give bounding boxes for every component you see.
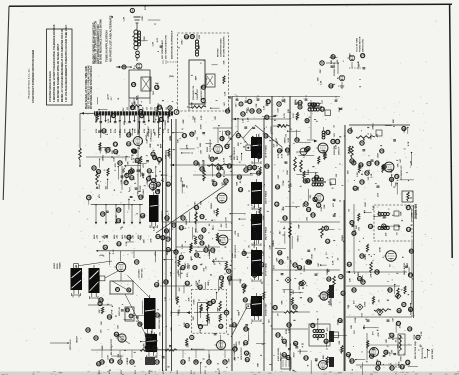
svg-text:1.2K: 1.2K bbox=[152, 41, 154, 46]
svg-text:43: 43 bbox=[97, 170, 101, 174]
svg-text:24: 24 bbox=[408, 327, 412, 331]
svg-text:1.2K: 1.2K bbox=[124, 16, 126, 21]
svg-text:100K: 100K bbox=[191, 102, 193, 108]
svg-text:470K: 470K bbox=[114, 128, 117, 133]
svg-text:35: 35 bbox=[101, 212, 105, 216]
svg-text:68K: 68K bbox=[258, 362, 260, 366]
svg-text:78: 78 bbox=[167, 248, 171, 252]
svg-text:84: 84 bbox=[400, 365, 404, 369]
svg-text:59: 59 bbox=[217, 173, 221, 177]
svg-text:66: 66 bbox=[276, 185, 280, 189]
svg-text:3: 3 bbox=[318, 203, 320, 207]
svg-text:12AU7: 12AU7 bbox=[208, 353, 211, 360]
svg-text:22K: 22K bbox=[199, 34, 201, 38]
svg-text:8MF: 8MF bbox=[178, 269, 180, 274]
svg-text:16: 16 bbox=[367, 162, 371, 166]
svg-text:1MEG: 1MEG bbox=[304, 265, 306, 271]
svg-text:1MEG: 1MEG bbox=[371, 133, 373, 139]
svg-text:61: 61 bbox=[127, 142, 131, 146]
svg-text:20: 20 bbox=[220, 137, 224, 141]
svg-text:1MEG: 1MEG bbox=[188, 263, 190, 269]
svg-text:9: 9 bbox=[278, 102, 280, 106]
svg-text:.0047: .0047 bbox=[364, 201, 367, 207]
svg-text:250: 250 bbox=[154, 107, 156, 110]
svg-text:73: 73 bbox=[360, 180, 364, 184]
svg-text:1MEG: 1MEG bbox=[298, 235, 300, 241]
svg-text:49: 49 bbox=[295, 138, 299, 142]
svg-text:470K: 470K bbox=[157, 128, 160, 133]
svg-text:33K: 33K bbox=[228, 358, 230, 362]
svg-text:54: 54 bbox=[132, 83, 136, 87]
svg-text:2 RESISTORS ARE 1/2 WATT UNLE: 2 RESISTORS ARE 1/2 WATT UNLESS NOTED; T… bbox=[53, 24, 56, 102]
svg-text:22K: 22K bbox=[317, 77, 319, 81]
svg-text:66: 66 bbox=[353, 186, 357, 190]
svg-text:.0047: .0047 bbox=[311, 253, 314, 259]
svg-text:28: 28 bbox=[131, 106, 135, 110]
svg-text:65: 65 bbox=[226, 109, 230, 113]
svg-text:68K: 68K bbox=[183, 119, 185, 123]
svg-text:33K: 33K bbox=[118, 353, 120, 357]
svg-text:62: 62 bbox=[298, 266, 302, 270]
svg-text:10K: 10K bbox=[99, 309, 101, 313]
svg-text:4.7K: 4.7K bbox=[112, 249, 115, 254]
svg-text:22K: 22K bbox=[259, 133, 261, 137]
svg-text:48: 48 bbox=[304, 179, 308, 183]
svg-text:37: 37 bbox=[124, 181, 128, 185]
svg-text:8MF: 8MF bbox=[196, 75, 198, 80]
svg-text:3RD IF TRANS: 3RD IF TRANS bbox=[265, 226, 268, 240]
svg-text:62: 62 bbox=[264, 134, 268, 138]
svg-text:38: 38 bbox=[114, 150, 118, 154]
svg-text:M: M bbox=[359, 305, 361, 309]
svg-text:60: 60 bbox=[195, 253, 199, 257]
svg-text:72: 72 bbox=[199, 325, 203, 329]
svg-text:1/2 12AU7: 1/2 12AU7 bbox=[138, 269, 141, 278]
svg-text:11: 11 bbox=[180, 226, 184, 230]
svg-text:23: 23 bbox=[273, 306, 277, 310]
svg-text:6CB6: 6CB6 bbox=[232, 252, 234, 258]
svg-text:30: 30 bbox=[117, 208, 121, 212]
svg-text:1ST IF TRANS: 1ST IF TRANS bbox=[265, 145, 268, 158]
svg-text:1.2K: 1.2K bbox=[248, 117, 250, 122]
svg-text:66: 66 bbox=[283, 339, 287, 343]
svg-text:47: 47 bbox=[257, 109, 261, 113]
svg-text:33K: 33K bbox=[290, 183, 292, 187]
svg-text:7: 7 bbox=[202, 99, 204, 103]
svg-text:6T8 RATIO DET: 6T8 RATIO DET bbox=[400, 165, 403, 180]
svg-text:85: 85 bbox=[185, 324, 189, 328]
svg-text:3.3K: 3.3K bbox=[335, 144, 337, 149]
svg-text:17: 17 bbox=[224, 179, 228, 183]
svg-text:63: 63 bbox=[276, 333, 280, 337]
svg-text:33K: 33K bbox=[224, 60, 226, 64]
svg-text:3.3K: 3.3K bbox=[165, 296, 167, 301]
svg-text:47: 47 bbox=[402, 303, 406, 307]
svg-text:2ND VIDEO IF: 2ND VIDEO IF bbox=[234, 146, 236, 160]
svg-text:54: 54 bbox=[283, 216, 287, 220]
svg-text:83: 83 bbox=[219, 324, 223, 328]
svg-text:.0047: .0047 bbox=[181, 39, 184, 45]
svg-text:22K: 22K bbox=[143, 239, 145, 243]
svg-text:3.3K: 3.3K bbox=[154, 226, 156, 231]
svg-text:39: 39 bbox=[265, 164, 269, 168]
svg-text:82: 82 bbox=[352, 288, 356, 292]
svg-text:26: 26 bbox=[210, 157, 214, 161]
svg-text:70: 70 bbox=[347, 353, 351, 357]
svg-text:18: 18 bbox=[407, 227, 411, 231]
svg-text:68K: 68K bbox=[124, 121, 126, 125]
svg-text:22K: 22K bbox=[290, 259, 292, 263]
svg-text:470K: 470K bbox=[133, 128, 136, 133]
svg-text:59: 59 bbox=[311, 324, 315, 328]
svg-text:22K: 22K bbox=[349, 278, 351, 282]
svg-text:47K: 47K bbox=[105, 149, 108, 153]
svg-text:1.2K: 1.2K bbox=[263, 251, 265, 256]
svg-text:4700: 4700 bbox=[98, 370, 101, 374]
svg-text:51: 51 bbox=[202, 228, 206, 232]
svg-text:PHONO JACK: PHONO JACK bbox=[333, 62, 336, 76]
svg-text:81: 81 bbox=[390, 366, 394, 370]
svg-text:NO PARTS LIST AND ALTERNATE: NO PARTS LIST AND ALTERNATE bbox=[109, 15, 113, 62]
svg-text:22K: 22K bbox=[224, 170, 226, 174]
svg-text:51: 51 bbox=[102, 129, 106, 133]
svg-text:16: 16 bbox=[212, 299, 216, 303]
svg-text:1.2K: 1.2K bbox=[270, 245, 272, 250]
svg-text:10K: 10K bbox=[177, 139, 179, 143]
svg-text:8MF: 8MF bbox=[379, 210, 381, 215]
svg-text:30: 30 bbox=[156, 313, 160, 317]
svg-text:8MF: 8MF bbox=[407, 262, 409, 267]
svg-text:62: 62 bbox=[294, 341, 298, 345]
svg-text:87: 87 bbox=[265, 115, 269, 119]
svg-text:47K: 47K bbox=[377, 192, 380, 196]
svg-text:15: 15 bbox=[253, 297, 257, 301]
svg-text:270K: 270K bbox=[111, 309, 113, 315]
svg-text:82: 82 bbox=[186, 281, 190, 285]
svg-text:AGC: AGC bbox=[236, 155, 239, 160]
svg-text:33K: 33K bbox=[288, 109, 290, 113]
svg-text:TUBE IN APPLICATION: TUBE IN APPLICATION bbox=[104, 30, 108, 62]
svg-text:IN SOME RECEIVERS: IN SOME RECEIVERS bbox=[224, 36, 226, 57]
svg-text:6: 6 bbox=[383, 224, 385, 228]
svg-text:METER; AC VOLTAGES MEASURED AT: METER; AC VOLTAGES MEASURED AT 1000 OHMS… bbox=[61, 29, 64, 102]
svg-text:100K: 100K bbox=[194, 299, 196, 305]
svg-text:77: 77 bbox=[110, 359, 114, 363]
svg-text:47: 47 bbox=[407, 206, 411, 210]
svg-text:76: 76 bbox=[200, 241, 204, 245]
svg-text:68K: 68K bbox=[393, 119, 395, 123]
svg-text:1MEG: 1MEG bbox=[162, 213, 164, 219]
svg-text:83: 83 bbox=[388, 288, 392, 292]
svg-text:80: 80 bbox=[202, 85, 206, 89]
svg-text:10K: 10K bbox=[156, 156, 158, 160]
svg-text:10: 10 bbox=[239, 188, 243, 192]
svg-text:6SN7GT: 6SN7GT bbox=[151, 128, 153, 137]
svg-text:66: 66 bbox=[139, 195, 143, 199]
svg-text:3.3K: 3.3K bbox=[332, 260, 334, 265]
svg-text:1.2K: 1.2K bbox=[410, 160, 412, 165]
svg-text:1MEG: 1MEG bbox=[373, 123, 375, 129]
svg-text:1 DC VOLTAGE MEASUREMENTS TAK: 1 DC VOLTAGE MEASUREMENTS TAKEN WITH VAC… bbox=[65, 24, 68, 102]
svg-text:4: 4 bbox=[340, 275, 342, 279]
svg-text:84: 84 bbox=[213, 182, 217, 186]
svg-text:24: 24 bbox=[147, 177, 151, 181]
svg-text:59: 59 bbox=[115, 332, 119, 336]
svg-text:27: 27 bbox=[361, 54, 365, 58]
svg-text:4700: 4700 bbox=[176, 370, 179, 374]
svg-text:.0047: .0047 bbox=[275, 137, 278, 143]
svg-text:28: 28 bbox=[87, 196, 91, 200]
svg-text:56: 56 bbox=[157, 182, 161, 186]
svg-text:HORIZ: HORIZ bbox=[54, 262, 56, 269]
svg-text:39: 39 bbox=[155, 283, 159, 287]
svg-text:250: 250 bbox=[147, 107, 149, 110]
svg-text:10K: 10K bbox=[147, 132, 149, 136]
svg-text:270K: 270K bbox=[195, 117, 197, 123]
svg-text:37: 37 bbox=[135, 260, 139, 264]
svg-text:PEAK SIGNAL AT PICTURE TUBE GR: PEAK SIGNAL AT PICTURE TUBE GRID bbox=[85, 66, 88, 109]
svg-text:87: 87 bbox=[130, 176, 134, 180]
svg-text:12: 12 bbox=[161, 236, 165, 240]
svg-text:33: 33 bbox=[180, 255, 184, 259]
svg-text:76: 76 bbox=[360, 254, 364, 258]
svg-text:470K: 470K bbox=[109, 128, 112, 133]
svg-text:M: M bbox=[225, 311, 228, 315]
svg-text:VERT LIN: VERT LIN bbox=[119, 307, 121, 316]
svg-text:M: M bbox=[287, 278, 289, 282]
svg-text:22K: 22K bbox=[248, 107, 250, 111]
svg-text:48: 48 bbox=[397, 309, 401, 313]
svg-text:65: 65 bbox=[307, 208, 311, 212]
svg-text:50: 50 bbox=[200, 215, 204, 219]
svg-text:4.7K: 4.7K bbox=[316, 335, 319, 340]
svg-text:33: 33 bbox=[211, 248, 215, 252]
svg-text:4700: 4700 bbox=[204, 370, 207, 374]
svg-text:4.7K: 4.7K bbox=[283, 113, 286, 118]
svg-text:83: 83 bbox=[233, 323, 237, 327]
svg-text:SOUND TRAP: SOUND TRAP bbox=[265, 303, 268, 316]
svg-text:(ION TRAP): (ION TRAP) bbox=[431, 348, 434, 359]
svg-text:8MF: 8MF bbox=[208, 281, 210, 286]
svg-text:100K: 100K bbox=[365, 301, 367, 307]
svg-text:9: 9 bbox=[353, 161, 355, 165]
svg-text:250: 250 bbox=[127, 107, 129, 110]
svg-text:22K: 22K bbox=[348, 170, 350, 174]
svg-text:68K: 68K bbox=[200, 142, 202, 146]
svg-text:8MF: 8MF bbox=[161, 143, 163, 148]
svg-text:68K: 68K bbox=[237, 181, 239, 185]
svg-text:57: 57 bbox=[195, 206, 199, 210]
svg-text:59: 59 bbox=[244, 298, 248, 302]
svg-text:72: 72 bbox=[365, 171, 369, 175]
svg-text:25: 25 bbox=[193, 266, 197, 270]
svg-text:3.3K: 3.3K bbox=[421, 331, 423, 336]
svg-text:ADDITIONAL SCHEMATICS: ADDITIONAL SCHEMATICS bbox=[171, 30, 174, 59]
svg-text:©Howard W. Sams & Co., Inc.: ©Howard W. Sams & Co., Inc. bbox=[28, 68, 31, 99]
svg-text:33K: 33K bbox=[188, 297, 190, 301]
svg-text:10: 10 bbox=[148, 169, 152, 173]
svg-text:4700: 4700 bbox=[190, 370, 193, 374]
svg-text:57: 57 bbox=[293, 263, 297, 267]
svg-text:TO TUNER: TO TUNER bbox=[165, 120, 167, 130]
svg-text:.0047: .0047 bbox=[286, 169, 289, 175]
svg-text:5: 5 bbox=[321, 61, 323, 65]
svg-text:8MF: 8MF bbox=[136, 95, 138, 100]
svg-text:33K: 33K bbox=[356, 225, 358, 229]
svg-text:1.2K: 1.2K bbox=[329, 300, 331, 305]
svg-text:64: 64 bbox=[156, 235, 160, 239]
svg-text:4.7K: 4.7K bbox=[156, 37, 159, 42]
svg-text:1MEG: 1MEG bbox=[102, 155, 104, 161]
svg-text:(FM): (FM) bbox=[169, 76, 174, 78]
svg-text:.0047: .0047 bbox=[141, 15, 144, 21]
svg-text:71: 71 bbox=[406, 360, 410, 364]
svg-text:6AQ5 AUDIO: 6AQ5 AUDIO bbox=[403, 262, 406, 275]
svg-text:100K: 100K bbox=[295, 99, 297, 105]
svg-text:75: 75 bbox=[98, 302, 102, 306]
svg-text:61: 61 bbox=[228, 164, 232, 168]
svg-text:73: 73 bbox=[166, 237, 170, 241]
svg-text:+245: +245 bbox=[131, 235, 134, 239]
svg-text:47K: 47K bbox=[251, 202, 254, 206]
svg-text:83: 83 bbox=[244, 327, 248, 331]
svg-text:4.7K: 4.7K bbox=[407, 141, 410, 146]
svg-text:51: 51 bbox=[336, 140, 340, 144]
svg-text:50: 50 bbox=[331, 140, 335, 144]
svg-text:1MEG: 1MEG bbox=[211, 203, 213, 209]
svg-text:SEE TUNER CHART (FM): SEE TUNER CHART (FM) bbox=[165, 35, 168, 59]
svg-text:66: 66 bbox=[308, 260, 312, 264]
svg-text:SWITCH (FM): SWITCH (FM) bbox=[363, 39, 365, 52]
svg-text:49: 49 bbox=[198, 285, 202, 289]
svg-text:4.7K: 4.7K bbox=[224, 217, 227, 222]
svg-text:3.3K: 3.3K bbox=[171, 271, 173, 276]
svg-text:270K: 270K bbox=[201, 124, 203, 130]
svg-text:33K: 33K bbox=[351, 324, 353, 328]
svg-text:68K: 68K bbox=[331, 60, 333, 64]
svg-text:VERT HOLD: VERT HOLD bbox=[70, 339, 72, 350]
svg-text:270K: 270K bbox=[380, 247, 382, 253]
svg-text:68K: 68K bbox=[289, 151, 291, 155]
svg-text:1.2K: 1.2K bbox=[321, 80, 323, 85]
svg-text:270K: 270K bbox=[283, 180, 285, 186]
svg-text:74: 74 bbox=[380, 149, 384, 153]
svg-text:AT RATED VALUE OF EACH: AT RATED VALUE OF EACH bbox=[49, 71, 52, 102]
svg-text:68K: 68K bbox=[323, 355, 325, 359]
svg-text:60: 60 bbox=[375, 161, 379, 165]
svg-text:62: 62 bbox=[287, 323, 291, 327]
svg-text:47K: 47K bbox=[114, 163, 117, 167]
svg-text:36: 36 bbox=[172, 223, 176, 227]
svg-text:33K: 33K bbox=[199, 45, 201, 49]
svg-text:AS NOTED ON SCHEMATIC WITH NO: AS NOTED ON SCHEMATIC WITH NO SIGNAL INP… bbox=[57, 43, 60, 102]
svg-text:22K: 22K bbox=[320, 69, 322, 73]
svg-text:1MEG: 1MEG bbox=[365, 254, 367, 260]
svg-text:59: 59 bbox=[402, 127, 406, 131]
svg-text:48: 48 bbox=[278, 149, 282, 153]
svg-text:4.7K: 4.7K bbox=[277, 153, 280, 158]
svg-text:TO 21 IN TUBE: TO 21 IN TUBE bbox=[357, 37, 359, 52]
svg-text:84: 84 bbox=[225, 145, 229, 149]
svg-text:55: 55 bbox=[127, 133, 131, 137]
svg-text:3: 3 bbox=[240, 102, 242, 106]
svg-text:4700: 4700 bbox=[134, 370, 137, 374]
svg-text:3.3K: 3.3K bbox=[123, 168, 125, 173]
svg-text:47K: 47K bbox=[150, 238, 153, 242]
svg-text:78: 78 bbox=[191, 35, 195, 39]
svg-text:67: 67 bbox=[266, 100, 270, 104]
svg-text:33K: 33K bbox=[339, 340, 341, 344]
svg-text:VIDEO IF: VIDEO IF bbox=[339, 146, 341, 155]
svg-text:.0047: .0047 bbox=[289, 342, 292, 348]
svg-text:5: 5 bbox=[378, 361, 380, 365]
svg-text:2: 2 bbox=[169, 106, 171, 110]
svg-text:22K: 22K bbox=[277, 257, 279, 261]
svg-text:1MEG: 1MEG bbox=[273, 240, 275, 246]
svg-text:OSC: OSC bbox=[153, 90, 155, 95]
svg-text:68K: 68K bbox=[400, 211, 402, 215]
svg-text:STANDARD COIL: STANDARD COIL bbox=[192, 84, 195, 100]
svg-text:21: 21 bbox=[190, 132, 194, 136]
svg-text:76: 76 bbox=[305, 119, 309, 123]
svg-text:1.2K: 1.2K bbox=[108, 118, 110, 123]
svg-text:68K: 68K bbox=[171, 327, 173, 331]
svg-text:86: 86 bbox=[140, 114, 144, 118]
svg-text:2ND IF TRANS: 2ND IF TRANS bbox=[265, 190, 268, 204]
svg-text:4TH IF TRANS: 4TH IF TRANS bbox=[265, 262, 268, 276]
svg-text:47K: 47K bbox=[186, 273, 189, 277]
svg-text:42: 42 bbox=[130, 360, 134, 364]
svg-text:8MF: 8MF bbox=[251, 213, 253, 218]
svg-text:4700: 4700 bbox=[148, 370, 151, 374]
svg-text:54: 54 bbox=[139, 110, 143, 114]
svg-text:80: 80 bbox=[167, 182, 171, 186]
svg-text:33K: 33K bbox=[234, 356, 236, 360]
svg-text:78: 78 bbox=[129, 170, 133, 174]
svg-text:77: 77 bbox=[220, 276, 224, 280]
svg-text:47K: 47K bbox=[234, 230, 237, 234]
svg-text:0: 0 bbox=[130, 314, 132, 318]
svg-text:8MF: 8MF bbox=[138, 129, 140, 134]
svg-text:3.3K: 3.3K bbox=[288, 137, 290, 142]
svg-text:54: 54 bbox=[286, 356, 290, 360]
svg-text:1MEG: 1MEG bbox=[327, 268, 329, 274]
svg-text:75: 75 bbox=[397, 322, 401, 326]
svg-text:64: 64 bbox=[117, 242, 121, 246]
svg-text:8MF: 8MF bbox=[150, 143, 152, 148]
svg-text:53: 53 bbox=[311, 213, 315, 217]
svg-text:20: 20 bbox=[350, 221, 354, 225]
svg-text:3.3K: 3.3K bbox=[189, 356, 191, 361]
svg-text:10: 10 bbox=[248, 100, 252, 104]
svg-text:8MF: 8MF bbox=[214, 258, 216, 263]
svg-text:46: 46 bbox=[207, 360, 211, 364]
svg-text:8MF: 8MF bbox=[239, 311, 241, 316]
svg-text:50: 50 bbox=[165, 229, 169, 233]
svg-text:41: 41 bbox=[94, 336, 98, 340]
svg-text:65: 65 bbox=[298, 101, 302, 105]
svg-text:68K: 68K bbox=[281, 300, 283, 304]
svg-text:40: 40 bbox=[370, 354, 374, 358]
svg-text:470K: 470K bbox=[167, 128, 170, 133]
svg-text:26: 26 bbox=[244, 341, 248, 345]
svg-text:10K: 10K bbox=[386, 339, 388, 343]
svg-text:89: 89 bbox=[127, 235, 131, 239]
svg-text:4.7K: 4.7K bbox=[225, 223, 228, 228]
svg-text:58: 58 bbox=[253, 273, 257, 277]
svg-text:VERT OSC: VERT OSC bbox=[142, 268, 144, 278]
svg-text:100K: 100K bbox=[140, 185, 142, 191]
